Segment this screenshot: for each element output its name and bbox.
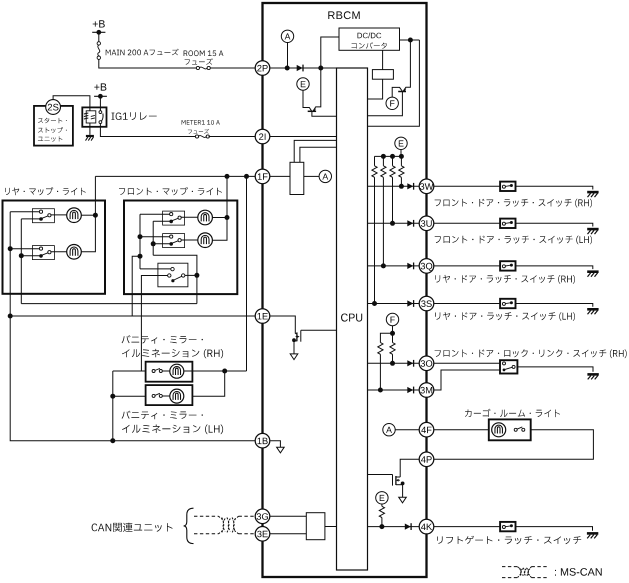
connector E3 <box>376 492 388 504</box>
vanity RH box <box>146 362 193 382</box>
+B supply 1 label <box>93 20 105 27</box>
wire relay coil to ground <box>89 123 91 135</box>
junction res bus 1 <box>381 154 386 159</box>
wire cargo lamp to pin 4P <box>434 430 594 460</box>
cargo lamp <box>492 423 506 437</box>
wire 1F to block <box>270 175 290 177</box>
junction 4K row <box>379 524 384 529</box>
wire CPU to pin 3O <box>368 362 420 364</box>
ground 4K <box>587 532 598 535</box>
wire block top1 to CPU <box>294 140 336 162</box>
pin 3O <box>419 356 434 371</box>
wire block top2 to CPU <box>300 147 337 162</box>
DC/DC label line1 <box>358 33 382 39</box>
wire METER fuse to pin 2I <box>209 136 256 138</box>
wire L3 to node <box>213 217 228 219</box>
label cargo room light <box>465 409 560 417</box>
ground M2 <box>399 497 407 503</box>
junction 1F bus vanity <box>244 174 249 179</box>
connector E2 <box>395 137 407 149</box>
label 3S <box>435 312 575 321</box>
fuse MAIN 200A <box>97 42 100 45</box>
front map switch S3 <box>163 211 185 225</box>
relay contact <box>99 111 102 114</box>
label 3Q <box>435 275 575 284</box>
diode 3M row <box>407 387 413 393</box>
CPU box U1 <box>337 68 368 570</box>
junction front rail S4 <box>138 234 143 239</box>
pin 2I <box>255 129 270 144</box>
wire switch 3Q to ground <box>516 266 593 269</box>
ground relay <box>86 135 94 137</box>
label vanity LH l1 <box>122 411 203 420</box>
ground 3S <box>587 308 598 311</box>
rear map switch S2 <box>32 246 54 260</box>
front map light box <box>124 201 237 295</box>
wire switch 3W to ground <box>516 186 593 189</box>
label vanity RH l1 <box>122 335 203 344</box>
wire A1 down <box>287 43 289 69</box>
start-stop unit box <box>34 106 73 146</box>
wire S5 right to node <box>185 274 197 276</box>
connector A3 <box>383 424 395 436</box>
front common rail <box>152 221 154 255</box>
junction vanity LH <box>110 394 115 399</box>
resistor R2 <box>382 156 384 165</box>
connector A2 <box>319 170 331 182</box>
front map switch S4 <box>163 234 185 248</box>
rear map lamp L1 <box>67 208 82 223</box>
wire vanity LH sw-lamp <box>162 395 170 397</box>
junction 1B bus <box>110 438 115 443</box>
pin 2P <box>255 61 270 76</box>
wire vanity LH riser <box>192 371 224 396</box>
resistor bus <box>375 155 402 157</box>
wire common rail to switch node <box>153 255 197 275</box>
junction on 2P wire <box>285 66 290 71</box>
pin 3S <box>419 296 434 311</box>
junction front lamps <box>225 215 230 220</box>
RBCM title <box>328 11 359 19</box>
wire pin 3W to switch <box>434 185 500 187</box>
vanity LH lamp <box>170 389 184 403</box>
wire rail to S2 top <box>10 248 39 250</box>
resistor R5 <box>378 343 383 355</box>
junction S5 common <box>194 273 199 278</box>
wire pin 3O to lock-link switch <box>434 362 500 364</box>
wire pin 3S to switch <box>434 303 500 305</box>
ground 1B <box>277 447 285 453</box>
resistor R3 <box>392 156 394 165</box>
ground 3U <box>587 228 598 231</box>
wire E3 to resistor <box>381 504 383 506</box>
pin 4K <box>419 519 434 534</box>
wire R4 to 3W row <box>400 177 402 186</box>
label liftgate latch switch <box>437 536 581 544</box>
rear map lamp L2 <box>67 245 82 260</box>
pin 3W <box>419 179 434 194</box>
RBCM module box <box>263 3 427 577</box>
latch switch 4K <box>500 522 515 531</box>
vanity RH lamp <box>170 364 184 378</box>
+B supply 2 label <box>94 83 106 90</box>
junction DC/DC out <box>408 38 413 43</box>
pin 3U <box>419 216 434 231</box>
wire S2 to L2 <box>51 251 67 253</box>
wire S1 common to rail2 <box>21 218 42 220</box>
wire vanity riser to 1F bus <box>246 176 248 371</box>
+B terminal 2 <box>94 95 107 97</box>
wire +B to MAIN fuse <box>98 32 100 41</box>
lock-link switch contacts <box>503 362 506 365</box>
bus rear-front common <box>21 303 197 305</box>
wire CPU to pin 3W <box>368 185 420 187</box>
wire R7 to 4K row <box>381 518 383 527</box>
wire R6 to 3O row <box>392 354 394 363</box>
vanity RH switch <box>152 370 155 373</box>
pin 1F <box>255 169 270 184</box>
resistor R7 <box>379 506 384 517</box>
junction F2 node <box>390 331 395 336</box>
connector F1 <box>386 97 398 109</box>
junction vanity RH out <box>222 369 227 374</box>
ground 3Q <box>587 270 598 273</box>
vanity left rail <box>112 371 114 441</box>
wire S3 top to front rail <box>140 213 170 215</box>
label vanity LH l2 <box>122 425 223 435</box>
latch switch 3W <box>500 182 515 191</box>
wire S5 mid to vanity <box>141 276 167 372</box>
wire MAIN fuse to ROOM fuse <box>99 59 197 68</box>
junction 1E bus <box>8 314 13 319</box>
wire rail2 to S4 common <box>153 243 169 245</box>
junction res bus 3 <box>399 154 404 159</box>
relay IG1 box <box>82 107 106 126</box>
wire 1B to ground <box>270 441 280 448</box>
front select rail <box>139 214 141 269</box>
start-stop unit label l3 <box>38 136 63 142</box>
legend MS-CAN label <box>555 568 602 576</box>
wire S1 to L1 <box>51 214 67 216</box>
connector A1 <box>281 30 293 42</box>
ground M1 <box>290 354 298 360</box>
label CAN units <box>92 523 173 532</box>
wire S3 to L3 <box>181 216 198 218</box>
wire K1 to CPU <box>368 79 383 99</box>
start-stop unit label l2 <box>38 127 67 133</box>
resistor R1 <box>374 156 376 165</box>
twisted pair CAN-H <box>194 515 219 517</box>
wire pin 3Q to switch <box>434 265 500 267</box>
pin 1E <box>255 309 270 324</box>
wire CPU to pin 3Q <box>368 265 420 267</box>
wire rail to S4 top <box>140 236 170 238</box>
front map lamp L3 <box>198 210 213 225</box>
start-stop unit label l1 <box>38 118 67 123</box>
twisted pair CAN-L <box>194 533 219 535</box>
pin 4P <box>419 452 434 467</box>
junction 3M row <box>378 388 383 393</box>
wire S1 top to left rail <box>10 211 39 213</box>
wire 2I to CPU <box>270 136 337 138</box>
bus 1F <box>95 175 255 177</box>
junction 3U row <box>390 221 395 226</box>
rear common rail <box>20 219 22 304</box>
wire ROOM fuse to pin 2P <box>210 67 255 69</box>
junction front rail branch <box>138 254 143 259</box>
transistor Q2 <box>398 91 406 93</box>
fuse ROOM 15A <box>196 66 199 69</box>
junction node 2P-b <box>318 66 323 71</box>
front map lamp L4 <box>198 233 213 248</box>
junction front rail2 S4 <box>151 241 156 246</box>
diode 3U row <box>407 220 413 226</box>
wire CPU to pin 3U <box>368 222 420 224</box>
ROOM fuse label line1 <box>184 50 224 56</box>
connector 2S <box>46 100 61 115</box>
bus 1B <box>10 316 255 441</box>
vanity LH box <box>146 385 193 405</box>
wire liftgate switch to ground <box>516 527 593 531</box>
ground 3W <box>587 191 598 194</box>
pin 3G <box>255 509 270 524</box>
resistor block 1F <box>290 162 304 194</box>
junction rear lamps <box>93 213 98 218</box>
junction 1F bus front <box>225 174 230 179</box>
wire 3E to transceiver <box>270 533 307 535</box>
cargo switch <box>514 428 517 431</box>
junction rear rail S2 <box>8 246 13 251</box>
wire node to L4 <box>213 218 228 241</box>
wire A3 to pin 4F <box>395 429 419 431</box>
label 3W <box>435 199 592 208</box>
label rear map light <box>5 187 86 195</box>
wire switch 3U to ground <box>516 223 593 226</box>
diode 3O row <box>407 360 413 366</box>
junction 3W row <box>399 184 404 189</box>
resistor R6 <box>392 333 394 342</box>
diode 4K row <box>405 524 411 530</box>
wire E2 to bus <box>400 150 402 157</box>
wire lock-link to ground <box>517 367 593 372</box>
twist symbol CAN <box>219 516 225 521</box>
resistor R4 <box>400 156 402 165</box>
connector F2 <box>386 313 398 325</box>
junction 3Q row <box>381 263 386 268</box>
wire 2S to relay coil <box>53 96 90 111</box>
METER1 fuse label line1 <box>182 120 220 125</box>
label vanity RH l2 <box>122 349 223 358</box>
wire pin 4F to cargo lamp <box>434 429 489 431</box>
wire pin 4P to FET M2 <box>400 459 419 477</box>
junction res bus 2 <box>390 154 395 159</box>
latch switch 3U <box>500 219 515 228</box>
wire +B to relay contact <box>99 96 101 111</box>
wire S5 node down <box>196 275 198 303</box>
wire vanity LH row <box>113 395 146 397</box>
wire switch 3S to ground <box>516 304 593 307</box>
wire F2 node left <box>380 333 392 342</box>
wire R1 to 3S row <box>374 177 376 303</box>
wire branch to 1E rail <box>132 256 140 316</box>
CAN transceiver box <box>306 513 325 540</box>
junction 3S row <box>372 301 377 306</box>
CPU label <box>341 314 362 322</box>
ROOM fuse label line2 <box>185 58 213 64</box>
wire F2 down <box>392 326 394 334</box>
junction 3O row <box>390 361 395 366</box>
pin 4F <box>419 422 434 437</box>
legend twisted pair <box>502 566 518 568</box>
diode 3S row <box>407 300 413 306</box>
wire DC/DC out <box>400 39 420 41</box>
latch switch 3S <box>500 299 515 308</box>
diode D1 <box>297 65 303 71</box>
connector E1 <box>297 78 309 90</box>
wire CPU to pin 3S <box>368 303 420 305</box>
wire S3 common to rail2 <box>153 220 169 222</box>
wire pin 3U to switch <box>434 222 500 224</box>
METER1 fuse label line2 <box>188 129 209 134</box>
wire R5 to 3M row <box>379 354 381 390</box>
transistor M2 <box>396 476 400 478</box>
vanity LH switch <box>152 394 155 397</box>
wire DC/DC to K1 <box>382 50 384 69</box>
wire relay contact to METER fuse <box>100 124 195 137</box>
wire CPU to pin 4K <box>368 526 420 528</box>
relay element K1 <box>372 70 393 80</box>
bus 1E <box>10 315 255 317</box>
pin 3M <box>419 383 434 398</box>
relay coil <box>86 111 96 123</box>
wire DC/DC out to CPU <box>368 40 420 126</box>
lock-link switch box <box>500 360 517 373</box>
rear map light box <box>3 201 106 294</box>
wire vanity RH sw-lamp <box>162 370 170 372</box>
wire L1 to node <box>81 214 95 216</box>
fuse METER1 10A <box>195 135 198 138</box>
wire pin 4K to liftgate switch <box>434 526 500 528</box>
pin 3Q <box>419 259 434 274</box>
DC/DC label line2 <box>352 42 387 49</box>
wire R3 to 3U row <box>392 177 394 223</box>
wire transceiver to CPU <box>325 526 337 528</box>
wire 1E to FET M1 <box>270 316 296 334</box>
transistor M1 <box>295 333 297 335</box>
junction rear rail2 S2 <box>19 253 24 258</box>
wire node to L2 <box>81 215 95 252</box>
wire S4 to L4 <box>181 239 198 241</box>
+B terminal 1 <box>92 31 105 33</box>
pin 1B <box>255 433 270 448</box>
wire vanity RH row <box>113 370 146 372</box>
latch switch 3Q <box>500 261 515 270</box>
wire rear lamps to 1F bus <box>94 176 96 215</box>
wire 3G to transceiver <box>270 515 307 517</box>
wire R2 to 3Q row <box>382 177 384 266</box>
rear map switch S1 <box>32 209 54 223</box>
wire vanity RH out <box>184 370 247 372</box>
wire front lamps to 1F bus <box>226 176 228 217</box>
IG1 relay label <box>112 112 157 120</box>
wire node to DC/DC <box>321 37 339 68</box>
MAIN 200A fuse label <box>106 49 179 56</box>
DC/DC converter box <box>339 28 400 50</box>
wire CPU to pin 3M <box>368 389 420 391</box>
ground 3O <box>587 373 598 376</box>
wire rail2 to S2 common <box>21 255 42 257</box>
label 3U <box>435 236 592 245</box>
cargo room light box <box>489 419 531 440</box>
pin 3E <box>255 527 270 542</box>
label lock-link switch <box>435 349 627 358</box>
front 3pos switch S5 <box>158 263 188 287</box>
wire pin 3M to lock-link switch <box>434 370 500 390</box>
label front map light <box>119 187 222 195</box>
transistor Q1 <box>308 110 316 112</box>
wire 2P to CPU <box>270 67 337 69</box>
diode 3W row <box>407 183 413 189</box>
wire block to A2 <box>304 175 319 177</box>
rear left rail <box>9 212 11 316</box>
brace CAN <box>184 508 194 543</box>
diode 3Q row <box>407 263 413 269</box>
wire rail to big switch top <box>140 268 171 270</box>
